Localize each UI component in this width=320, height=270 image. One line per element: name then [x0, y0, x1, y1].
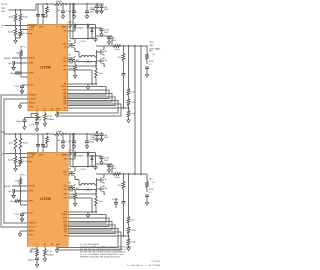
wire divider taps	[15, 9, 22, 11]
wire U1 pin loop 1	[68, 87, 107, 96]
wire SW node right	[95, 45, 105, 67]
wire U2 pin loop 3	[68, 222, 112, 231]
capacitor C26 VREF2 1uF	[8, 189, 27, 193]
capacitor C2a SHP filter	[36, 134, 40, 152]
svg-text:CLKOUT: CLKOUT	[29, 99, 37, 101]
resistor LED sense 3m stage1	[95, 68, 103, 78]
transistor M1 high-side left	[69, 41, 76, 50]
wire U2 gnd wrap tie	[57, 248, 59, 251]
svg-text:VINMON: VINMON	[29, 95, 37, 97]
svg-text:470nF: 470nF	[29, 252, 36, 254]
wire VIN drop right	[72, 3, 74, 39]
svg-text:GND: GND	[56, 109, 61, 111]
wire rail junctions	[46, 3, 88, 5]
wire top drain rail	[70, 157, 112, 174]
svg-text:0.047µF: 0.047µF	[27, 260, 35, 262]
svg-text:M7: M7	[105, 179, 108, 181]
capacitor output 1uF stage1	[107, 36, 117, 42]
svg-text:INTVCC: INTVCC	[19, 175, 26, 177]
wire U2 gnd wrap 1	[58, 229, 118, 248]
note component table	[80, 243, 132, 259]
svg-text:SHORT: SHORT	[4, 58, 12, 60]
wire U1 gnd wrap 1	[58, 101, 118, 114]
diode output stage2	[91, 156, 94, 161]
svg-text:SHORT: SHORT	[4, 186, 12, 188]
diode D2 BAS21	[87, 25, 97, 30]
resistor R8 VC 10k	[36, 114, 44, 122]
wire EN/UVLO net	[1, 150, 27, 156]
resistor R9 RT 41.2k	[44, 111, 54, 122]
wire U2 gnd wrap 2	[58, 232, 121, 250]
capacitor OVP stage1	[145, 67, 149, 72]
svg-text:100V: 100V	[104, 9, 109, 11]
ground divider	[14, 166, 17, 171]
svg-text:100V: 100V	[112, 40, 117, 42]
svg-text:OL: OL	[64, 95, 67, 97]
resistor RS1 13m ohm input sense	[54, 1, 64, 5]
ground output cap B	[107, 167, 110, 172]
svg-text:4.7µF: 4.7µF	[66, 141, 72, 143]
ground R29	[43, 257, 46, 262]
svg-text:SW: SW	[64, 186, 67, 188]
svg-text:M8: M8	[105, 188, 108, 190]
resistor R33 FB 1.87k	[127, 224, 135, 239]
svg-text:INTVCC: INTVCC	[68, 22, 75, 24]
diode output stage1	[91, 28, 94, 33]
ground sense loop	[86, 213, 89, 218]
wire top drain rail	[70, 29, 112, 46]
capacitor C2c VIN bypass	[57, 134, 65, 143]
svg-text:M1: M1	[69, 41, 72, 43]
ground ISMON stub	[18, 103, 27, 109]
node pins U2 left	[28, 153, 37, 237]
svg-text:CLKOUT: CLKOUT	[28, 227, 36, 229]
inductor L2 10uH	[81, 184, 95, 192]
ground C1e	[85, 14, 88, 19]
wire CTRL2 stub	[21, 204, 28, 206]
svg-text:200kHz: 200kHz	[47, 119, 54, 121]
resistor R2c EN divider bottom	[8, 154, 17, 165]
ground FB2	[127, 246, 130, 251]
capacitor C13 comp	[122, 74, 126, 109]
wire VIN pin drop	[56, 133, 58, 152]
node pins U2 top	[31, 155, 66, 157]
capacitor output 1uF stage2	[107, 164, 117, 170]
ground C6	[12, 65, 15, 70]
wire TG gate run	[68, 44, 72, 47]
svg-text:10mΩ: 10mΩ	[114, 177, 120, 179]
node VIN input label	[2, 4, 8, 13]
resistor R1b OVLO divider top	[19, 10, 28, 22]
wire U1 pin loop 2	[68, 90, 110, 99]
ground U1 GND pin	[55, 111, 58, 118]
ground output cap A	[100, 159, 103, 164]
ground C27	[20, 217, 23, 222]
svg-text:1N4148: 1N4148	[77, 28, 83, 30]
capacitor C28 VC2	[27, 258, 39, 262]
svg-text:M5: M5	[69, 169, 72, 171]
wire ISN sense	[68, 198, 97, 213]
resistor R2a EN divider top	[9, 134, 17, 150]
svg-text:LT3796: LT3796	[40, 197, 51, 201]
capacitor ISP filter stage2	[68, 187, 96, 191]
svg-text:0.47µF: 0.47µF	[112, 199, 119, 201]
ground R9	[43, 121, 46, 126]
node INTVCC label	[20, 47, 27, 49]
wire OVP stub	[68, 153, 71, 156]
wire divider gnd tie	[16, 164, 21, 166]
svg-text:fSW = 200 kHz, VIN(MIN) = 9V T: fSW = 200 kHz, VIN(MIN) = 9V TO RUN	[127, 265, 161, 267]
wire ISN sense	[68, 70, 97, 85]
svg-text:3mΩ: 3mΩ	[99, 201, 104, 203]
ground sense loop	[86, 85, 89, 90]
svg-text:SW: SW	[63, 58, 66, 60]
svg-text:VINMON: VINMON	[28, 223, 36, 225]
ground input cap B	[100, 137, 103, 142]
svg-text:1.82k: 1.82k	[131, 242, 136, 244]
resistor R1d OVLO divider bottom	[19, 31, 29, 37]
ground C2c	[61, 144, 64, 149]
capacitor ISP filter stage1	[68, 59, 97, 63]
resistor LED sense 3m stage2	[95, 196, 103, 206]
svg-text:GND: GND	[56, 244, 61, 246]
svg-text:ISMON: ISMON	[29, 103, 36, 105]
resistor output sense 10m stage2	[113, 173, 121, 179]
resistor R6 10k pull-up	[16, 49, 23, 58]
svg-text:2.2nF: 2.2nF	[14, 86, 20, 88]
ground C8	[35, 127, 38, 132]
ground sense	[73, 201, 76, 206]
transistor M4 low-side right	[99, 58, 108, 65]
svg-text:13mΩ: 13mΩ	[56, 131, 62, 133]
wire VIN drop left	[69, 133, 71, 166]
svg-text:SHORT: SHORT	[28, 186, 35, 188]
ground OVP	[145, 200, 148, 205]
capacitor C2e input 4.7uF	[85, 134, 96, 143]
wire VIN drop right	[72, 133, 74, 167]
svg-text:ON: ON	[1, 25, 5, 27]
wire BG gate	[68, 186, 72, 188]
resistor R27 PWM2 10k	[10, 186, 27, 205]
wire diode node	[88, 27, 102, 38]
node INTVCC2 label	[19, 175, 26, 177]
diode D5 BAS21	[74, 153, 84, 158]
capacitor boost 0.1uF stage1	[89, 36, 98, 42]
ground C28	[35, 262, 38, 267]
resistor R7 PWM 10k	[10, 58, 28, 77]
svg-text:DIM: DIM	[28, 162, 32, 164]
wire CTRL stub	[21, 76, 28, 78]
wire CLKOUT to U2	[1, 95, 27, 227]
wire divider gnd tie	[16, 36, 21, 38]
transistor M5 high-side left	[69, 169, 76, 178]
wire output rail	[96, 45, 148, 47]
wire EN stub	[68, 29, 76, 31]
wire U1 gnd wrap tie	[57, 112, 59, 117]
svg-text:4.7µF: 4.7µF	[66, 11, 72, 13]
svg-text:750k: 750k	[118, 57, 122, 59]
svg-text:100V: 100V	[90, 11, 95, 13]
ground ISMON2 stub	[18, 231, 27, 237]
wire OVP stub	[68, 25, 72, 28]
svg-text:2.2nF: 2.2nF	[14, 214, 20, 216]
svg-text:SHN: SHN	[39, 27, 44, 29]
ground divider	[14, 38, 17, 43]
ground OVP	[145, 72, 148, 77]
resistor output sense 10m stage1	[113, 45, 121, 51]
wire U2 pin loop 2	[68, 218, 109, 227]
svg-text:SYNC: SYNC	[28, 235, 34, 237]
node pins U1 top	[31, 27, 66, 29]
svg-text:CTRL: CTRL	[28, 213, 33, 215]
transistor M7 high-side right	[99, 177, 108, 184]
svg-text:OL: OL	[64, 223, 67, 225]
wire ISP sense	[68, 190, 97, 197]
wire U2 pin loop 4	[68, 225, 115, 234]
resistor R32 FB 7.5k	[127, 216, 134, 224]
ground C2d	[72, 144, 75, 149]
wire FB drop	[128, 46, 130, 88]
wire EN/UVLO net	[1, 22, 27, 28]
node INTVCC rail label stage1	[68, 22, 75, 24]
svg-text:1%: 1%	[149, 192, 152, 194]
wire output rail	[96, 173, 147, 175]
capacitor input 1uF stage2	[100, 132, 110, 139]
svg-text:40.2k: 40.2k	[8, 160, 14, 162]
resistor R1e rail	[43, 6, 48, 17]
ground U2 GND pin	[55, 246, 58, 253]
wire TG gate run	[68, 172, 72, 175]
wire VOUT link A	[134, 46, 136, 174]
wire SW node right	[95, 173, 105, 195]
node pins U1 bottom	[36, 109, 60, 111]
wire SHORT net	[4, 57, 28, 60]
svg-text:TGEN: TGEN	[62, 214, 68, 216]
capacitor C1c VIN bypass	[57, 4, 65, 13]
diode D6 BAS21	[87, 153, 97, 158]
svg-text:100k: 100k	[149, 179, 153, 181]
capacitor C7 CTRL 2.2nF	[14, 85, 27, 89]
capacitor link 2.2uF stage2	[81, 169, 87, 171]
svg-text:EN/UVLO: EN/UVLO	[28, 153, 37, 155]
wire U1 gnd wrap 2	[58, 104, 121, 116]
ground C26	[12, 193, 15, 198]
svg-text:48V: 48V	[150, 45, 154, 47]
capacitor input 4.7uF stage1	[90, 3, 99, 11]
svg-text:100V: 100V	[90, 141, 95, 143]
svg-text:TGEN: TGEN	[61, 86, 67, 88]
capacitor C6 VREF 1uF	[8, 61, 28, 65]
ground output cap B	[107, 39, 110, 44]
capacitor C33 mid 0.47uF	[112, 198, 119, 208]
wire VC stub	[31, 111, 37, 118]
wire U1 pin loop 4	[68, 97, 116, 106]
inductor L1 10uH	[81, 56, 95, 64]
wire FB pin run	[68, 107, 129, 109]
capacitor C1a SHP filter	[36, 4, 40, 24]
node pins U2 right	[62, 155, 68, 238]
svg-text:SYNC: SYNC	[29, 107, 35, 109]
resistor OVP divider stage2	[146, 174, 155, 194]
svg-text:D1, D4: NXP BAS21: D1, D4: NXP BAS21	[80, 243, 100, 246]
op-amp U1 LT3796 LED driver controller	[28, 24, 68, 111]
svg-text:VREF: VREF	[29, 63, 35, 65]
svg-text:EN/UVLO: EN/UVLO	[29, 25, 38, 27]
resistor R28 VC2 10k	[29, 249, 39, 257]
note test conditions	[127, 265, 161, 267]
wire BG gate	[68, 58, 72, 60]
svg-text:750k: 750k	[118, 185, 122, 187]
svg-text:10mΩ: 10mΩ	[114, 49, 120, 51]
node pins U1 right	[61, 27, 67, 110]
wire EN stub	[68, 157, 75, 159]
capacitor C20 100uF input bulk	[16, 118, 40, 125]
svg-text:1N4148: 1N4148	[77, 156, 83, 158]
svg-text:(50V MAX): (50V MAX)	[150, 47, 161, 50]
svg-text:M4: M4	[105, 60, 108, 62]
ground sense	[73, 73, 76, 78]
svg-text:7.5k: 7.5k	[131, 220, 135, 222]
ground input cap A	[95, 137, 98, 142]
svg-text:RSENSE: SUSUMU KRL6432E-M-R003: RSENSE: SUSUMU KRL6432E-M-R003-F	[80, 257, 121, 259]
op-amp U2 LT3796 LED driver controller	[27, 152, 68, 246]
svg-text:100µF: 100µF	[16, 121, 23, 123]
resistor R13 FB 1.87k	[127, 96, 135, 111]
svg-text:40.2k: 40.2k	[8, 32, 14, 34]
capacitor C1b SHN filter	[41, 4, 45, 24]
wire VIN pin drop	[56, 3, 58, 24]
wire diode node	[88, 155, 102, 166]
svg-text:M3: M3	[105, 51, 108, 53]
capacitor C2b SHN filter	[41, 134, 45, 152]
ground FB divider	[127, 118, 130, 123]
wire OVLO net	[20, 150, 28, 160]
node INTVCC rail label stage2	[69, 150, 76, 152]
wire VIN rail top	[36, 3, 104, 5]
ground input cap B	[100, 9, 103, 14]
svg-text:INTVCC: INTVCC	[20, 47, 27, 49]
resistor sense 8m stage1	[69, 63, 77, 73]
svg-text:PWM: PWM	[28, 201, 33, 203]
svg-text:4.7µF: 4.7µF	[37, 120, 43, 122]
transistor M8 low-side right	[99, 186, 108, 193]
svg-text:100V: 100V	[104, 160, 109, 162]
svg-text:200kHz: 200kHz	[47, 254, 54, 256]
capacitor output 4.7uF stage1	[100, 28, 110, 34]
svg-text:ISMON: ISMON	[28, 231, 35, 233]
resistor R2b OVLO divider top	[19, 134, 28, 150]
ground C1c	[61, 14, 64, 19]
node pins U1 left	[29, 25, 38, 109]
ground C7	[20, 89, 23, 94]
resistor R2d OVLO divider bottom	[19, 159, 29, 165]
svg-text:1.87k: 1.87k	[131, 230, 136, 232]
wire rail junctions	[46, 133, 88, 135]
wire VIN drop left	[69, 3, 71, 38]
resistor R31 comp 750k	[118, 174, 125, 202]
resistor R2e rail	[43, 136, 48, 147]
capacitor C37 comp	[122, 202, 126, 237]
svg-text:VREF: VREF	[28, 191, 34, 193]
transistor M6 low-side left	[69, 183, 76, 192]
svg-text:4.7nF: 4.7nF	[29, 125, 35, 127]
capacitor input 1uF stage1	[100, 4, 110, 11]
svg-text:100V: 100V	[112, 168, 117, 170]
resistor OVP divider stage1	[146, 46, 155, 66]
svg-text:100V: 100V	[104, 137, 109, 139]
wire SHORT2 net	[4, 185, 27, 188]
wire INTVCC gate rail	[68, 24, 96, 36]
wire FB2 drop	[128, 174, 130, 216]
wire SW node left	[75, 177, 81, 185]
capacitor C27 CTRL2 2.2nF	[14, 213, 27, 217]
wire VIN2 rail	[5, 133, 105, 135]
svg-text:16.9k: 16.9k	[149, 61, 154, 63]
svg-text:3mΩ: 3mΩ	[99, 73, 104, 75]
wire U2 pin loop 1	[68, 215, 106, 224]
capacitor C2d input 4.7uF	[66, 134, 76, 143]
wire SYNC to U2	[4, 99, 28, 223]
wire C20 feed	[37, 120, 43, 122]
resistor R29 RT2 41.2k	[44, 246, 54, 257]
resistor R11 comp 750k	[118, 46, 125, 74]
capacitor C1d input 4.7uF	[66, 4, 76, 13]
wire INTVCC gate rail	[68, 152, 96, 164]
svg-text:60V: 60V	[2, 11, 6, 13]
capacitor link 2.2uF stage1	[81, 41, 87, 43]
svg-text:OVLO: OVLO	[29, 29, 35, 31]
wire ISP sense	[68, 62, 97, 69]
svg-text:PWM: PWM	[29, 73, 34, 75]
svg-text:100k: 100k	[149, 51, 153, 53]
resistor R12 FB 7.5k	[127, 88, 134, 96]
wire U1 pin loop 3	[68, 94, 113, 103]
svg-text:7.5k: 7.5k	[131, 92, 135, 94]
capacitor C8 VC 4.7nF	[29, 123, 39, 127]
svg-text:M6: M6	[69, 183, 72, 185]
svg-text:SHN: SHN	[39, 155, 44, 157]
svg-text:CTRL: CTRL	[29, 85, 34, 87]
ground input cap A	[95, 9, 98, 14]
resistor sense 8m stage2	[69, 191, 77, 201]
svg-text:16.9k: 16.9k	[149, 189, 154, 191]
svg-text:L1, L2: COILCRAFT SER2915H-472: L1, L2: COILCRAFT SER2915H-472KL 4.7µH	[80, 253, 124, 256]
svg-text:1%: 1%	[152, 182, 155, 184]
resistor R26 10k pull-up	[15, 177, 22, 186]
svg-text:OVLO: OVLO	[28, 157, 34, 159]
wire VOUT link B	[140, 46, 142, 174]
ground output cap A	[100, 31, 103, 36]
wire VIN rail left	[9, 4, 37, 10]
capacitor C1e input 4.7uF	[85, 4, 96, 13]
node pins U2 bottom	[36, 244, 60, 246]
svg-text:ON: ON	[1, 153, 5, 155]
node VIN2 label	[2, 131, 5, 134]
svg-text:100V: 100V	[104, 32, 109, 34]
wire SW node left	[75, 49, 81, 57]
wire OVLO net	[20, 22, 28, 32]
capacitor input 4.7uF stage2	[90, 131, 99, 139]
resistor R1a EN divider top	[9, 10, 17, 22]
wire FB2 pin run	[68, 235, 129, 237]
capacitor OVP stage2	[145, 195, 149, 200]
ground C1d	[72, 14, 75, 19]
capacitor output 4.7uF stage2	[100, 156, 110, 162]
resistor RS2 13m ohm input sense	[54, 131, 64, 135]
svg-text:1%: 1%	[149, 64, 152, 66]
transistor M2 low-side left	[69, 55, 76, 64]
wire VC2 stub	[31, 246, 37, 252]
